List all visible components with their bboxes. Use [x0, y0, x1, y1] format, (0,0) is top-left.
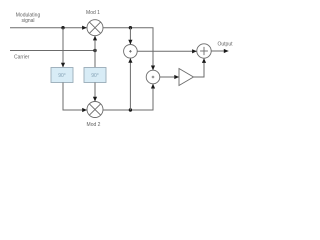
wire carrier down to 90 deg box 2: [94, 51, 96, 68]
summer 2: [146, 70, 160, 84]
wire Mod 1 output across top: [103, 28, 153, 70]
wire output: [211, 50, 228, 52]
wire summer 1 output to summer 3: [137, 50, 196, 52]
label Modulating signal: [16, 12, 41, 24]
summer 1: [124, 45, 138, 59]
wire Mod 2 output across bottom: [103, 84, 153, 110]
wire 90 deg box 1 output to Mod 2: [63, 83, 87, 111]
svg-text:Mod 1: Mod 1: [86, 10, 100, 16]
svg-text:signal: signal: [21, 18, 34, 24]
wire junction up to summer 1: [129, 58, 131, 110]
summer 3: [197, 44, 211, 58]
node junction Mod 1 output: [129, 26, 132, 29]
phase shifter 90 deg box 1: [51, 68, 73, 83]
svg-text:Output: Output: [217, 42, 233, 48]
svg-text:Carrier: Carrier: [14, 55, 30, 61]
svg-text:Mod 2: Mod 2: [87, 122, 101, 128]
wire carrier input: [10, 50, 95, 52]
wire 90 deg box 2 output to Mod 2: [94, 83, 96, 102]
wire modulating signal input: [10, 27, 87, 29]
svg-text:90°: 90°: [58, 73, 66, 79]
svg-text:90°: 90°: [91, 73, 99, 79]
wire amplifier output to summer 3: [194, 58, 205, 77]
wire modulating to 90 deg box 1: [62, 28, 64, 67]
wire junction down to summer 1: [129, 28, 131, 45]
mixer Mod 2: [87, 102, 103, 118]
node junction modulating line: [61, 26, 64, 29]
node junction carrier line: [93, 49, 96, 52]
node junction Mod 2 output: [129, 108, 132, 111]
amplifier: [179, 69, 194, 86]
wire carrier up to Mod 1: [94, 36, 96, 51]
wire summer 2 output to amplifier: [160, 76, 179, 78]
mixer Mod 1: [87, 20, 103, 36]
phase shifter 90 deg box 2: [84, 68, 106, 83]
